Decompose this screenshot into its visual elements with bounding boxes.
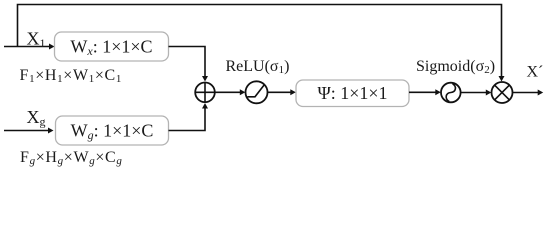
wire output X': [513, 92, 539, 94]
wire xg input: [4, 130, 49, 132]
wire adder to ReLU: [215, 91, 240, 93]
wire Psi to Sigmoid: [409, 91, 436, 93]
wire Wg output up to adder: [169, 108, 206, 131]
svg-text:Ψ: 1×1×1: Ψ: 1×1×1: [317, 83, 387, 103]
svg-text:Sigmoid(σ2): Sigmoid(σ2): [416, 58, 495, 76]
box Wx: 1x1xC: [55, 32, 169, 61]
arrowhead into multiplier top: [499, 76, 505, 82]
adder circle plus: [195, 83, 215, 103]
svg-text:Wg: 1×1×C: Wg: 1×1×C: [71, 121, 154, 142]
wire Wx output down to adder: [169, 47, 206, 78]
multiplier circle times: [492, 82, 513, 103]
box Psi: 1x1x1: [296, 80, 409, 107]
svg-text:F1×H1×W1×C1: F1×H1×W1×C1: [20, 67, 123, 85]
svg-text:Wx: 1×1×C: Wx: 1×1×C: [70, 37, 152, 58]
wire x1 input: [4, 46, 50, 48]
Sigmoid activation circle U2: [441, 83, 461, 103]
wire Sigmoid to multiplier: [461, 92, 486, 94]
ReLU activation circle U1: [246, 81, 268, 103]
svg-text:Fg×Hg×Wg×Cg: Fg×Hg×Wg×Cg: [20, 149, 123, 167]
svg-text:X´: X´: [527, 64, 544, 81]
box Wg: 1x1xC: [56, 116, 169, 145]
wire ReLU to Psi: [268, 91, 291, 93]
wire skip connection from x1 to multiplier: [18, 5, 502, 78]
